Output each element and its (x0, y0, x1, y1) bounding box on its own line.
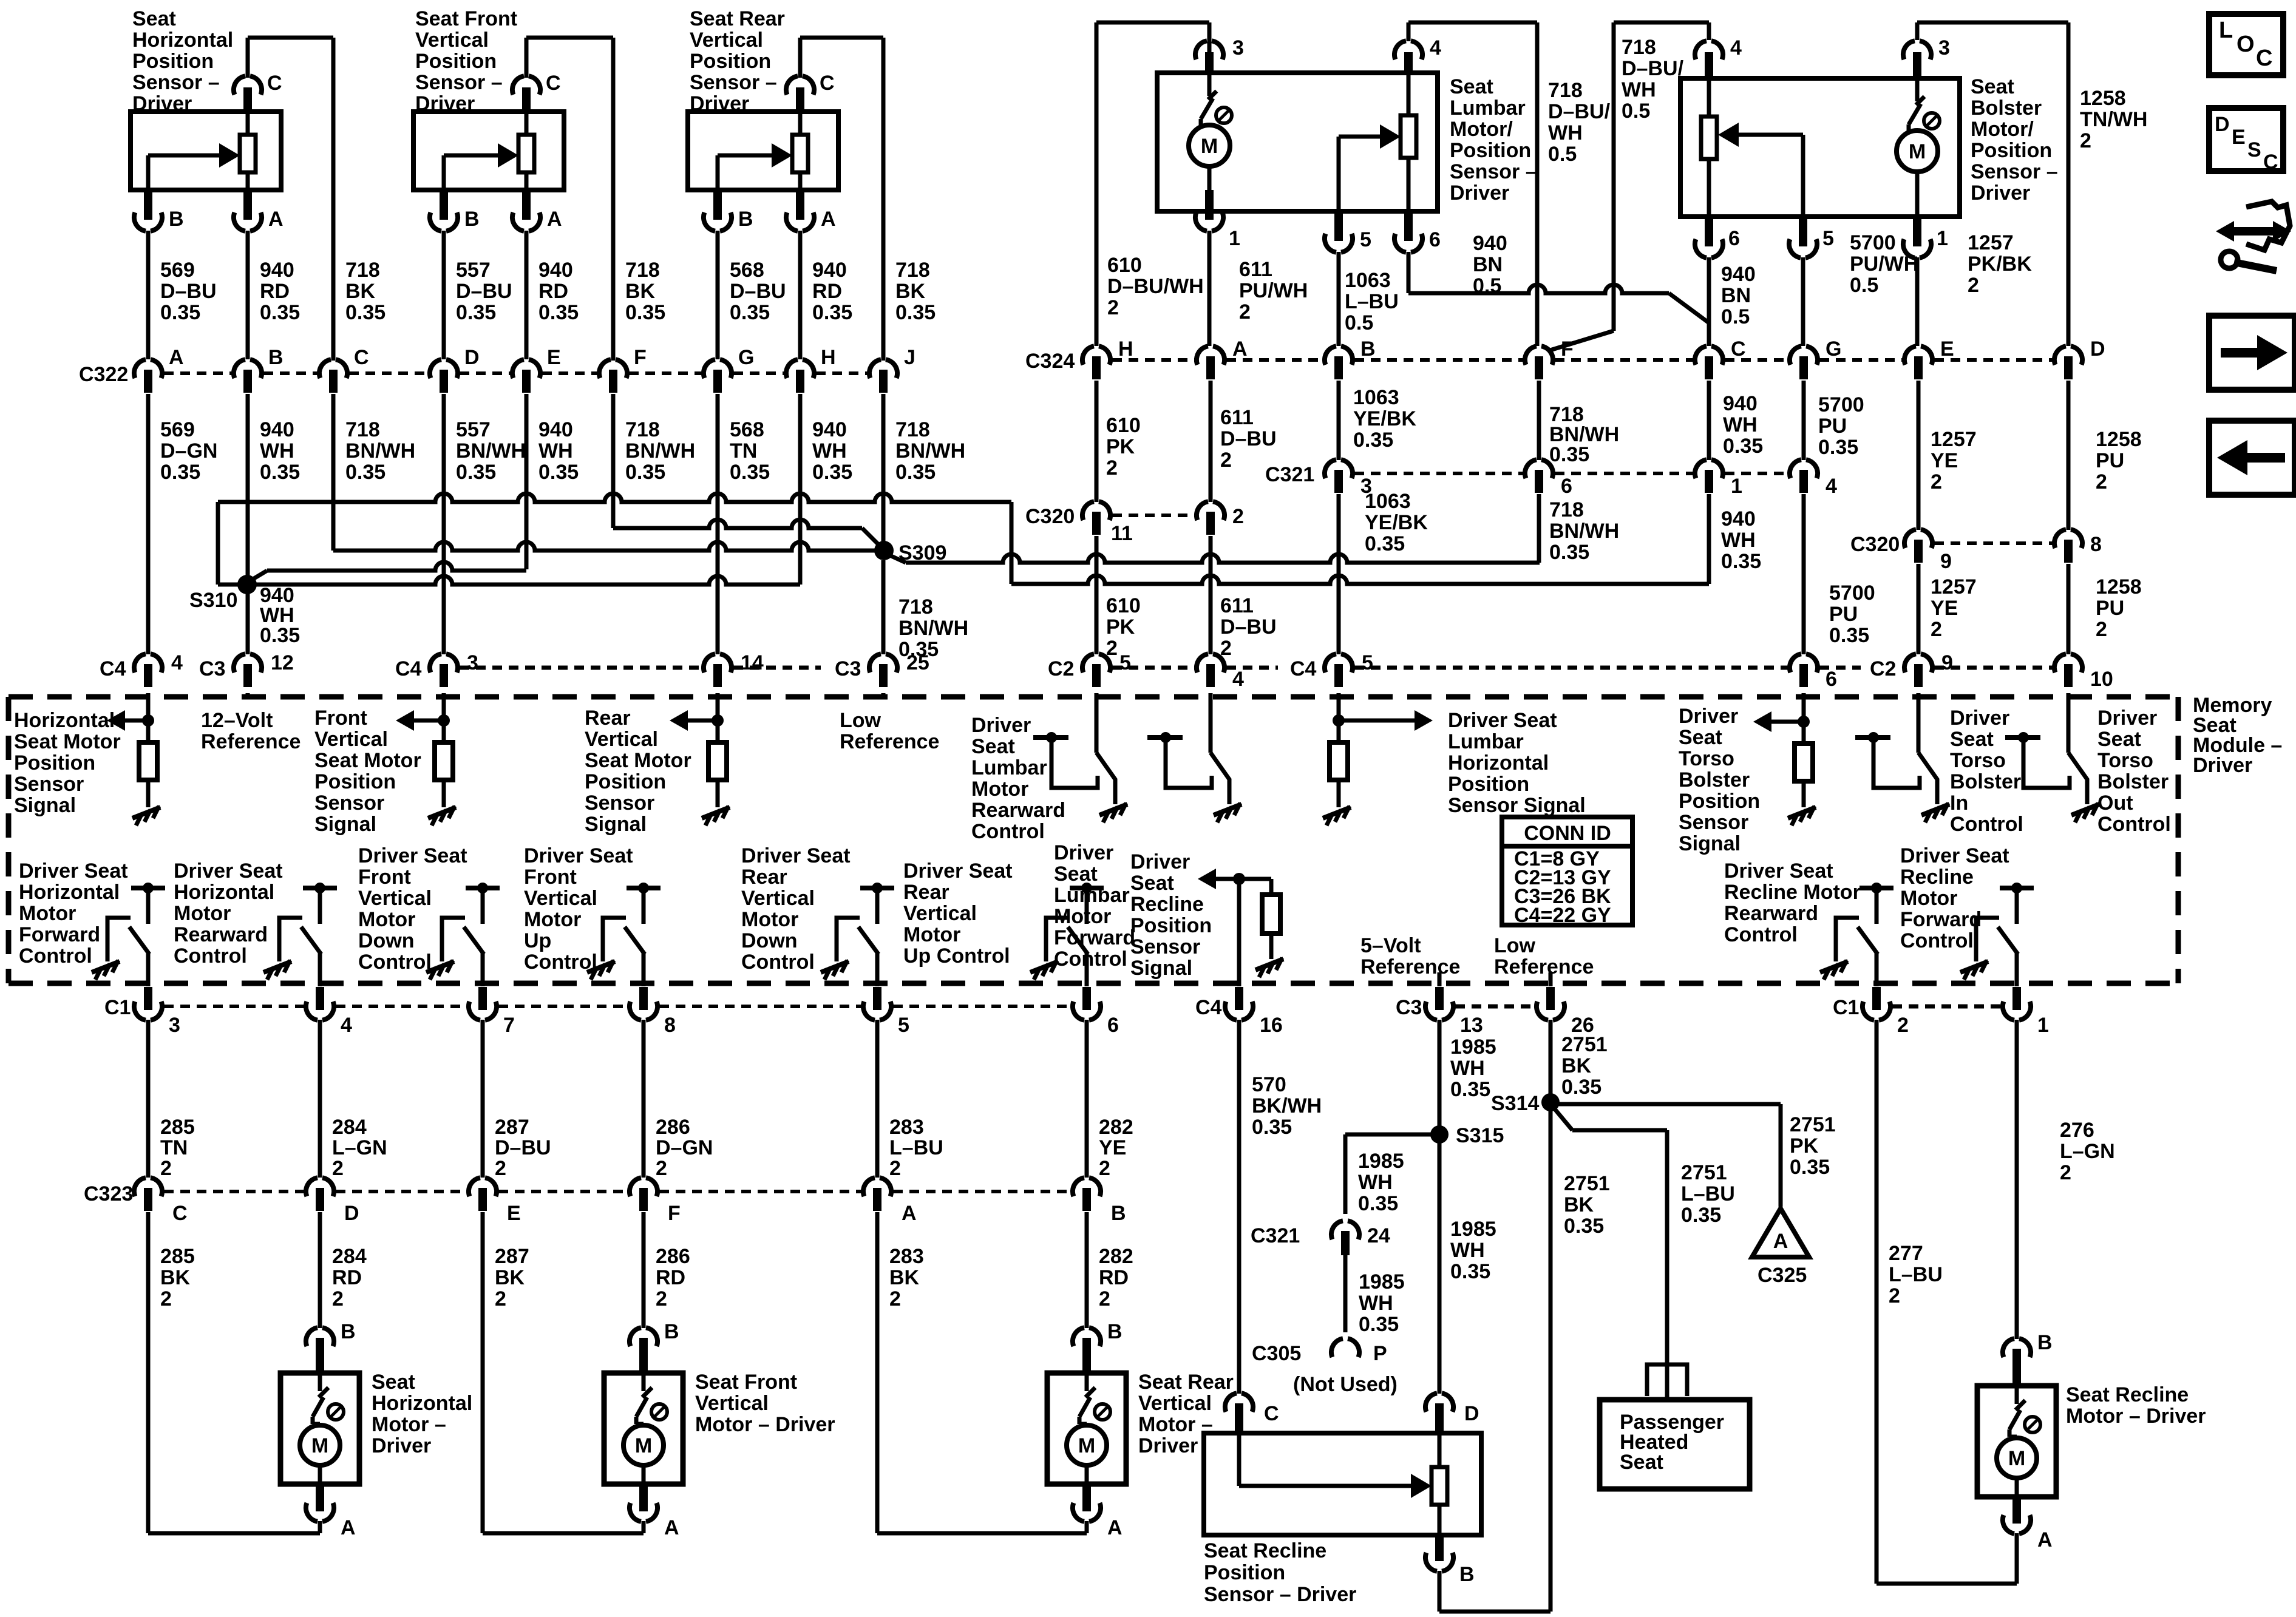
svg-text:Sensor: Sensor (585, 792, 654, 815)
svg-text:C324: C324 (1025, 350, 1075, 373)
svg-text:Sensor: Sensor (314, 792, 384, 815)
svg-text:PU: PU (1818, 415, 1847, 438)
svg-text:YE: YE (1931, 597, 1958, 620)
LOC icon box (2209, 14, 2283, 75)
module switch at C1-5 (rear vertical down) (821, 883, 894, 986)
connector C322 pin E (512, 346, 561, 393)
svg-text:B: B (268, 346, 284, 369)
wiper arrow inside sensor 2 (444, 143, 518, 190)
svg-text:25: 25 (906, 651, 929, 674)
wire label 285 BK 2 below C323 (160, 1245, 195, 1310)
pin B connector of sensor 3 (704, 190, 753, 359)
svg-text:Front: Front (314, 707, 367, 730)
module label Driver Seat Torso Bolster In Control (1950, 707, 2023, 836)
wire 718 BN/WH from C322-J to splice S309 (881, 394, 886, 551)
svg-text:E: E (1940, 337, 1954, 361)
svg-text:1063: 1063 (1365, 490, 1411, 513)
svg-text:Signal: Signal (1679, 832, 1741, 855)
svg-text:Horizontal: Horizontal (1448, 751, 1549, 775)
svg-text:1: 1 (1731, 475, 1742, 498)
wire label 285 TN 2 (160, 1116, 195, 1180)
svg-text:2: 2 (1232, 505, 1244, 528)
bus L1 drop at x=1666 (1010, 502, 1014, 584)
potentiometer inside sensor 3 (792, 112, 808, 190)
module C4-5 sensor input: arrow right, resistor, ground (1323, 693, 1433, 825)
svg-text:Control: Control (19, 944, 92, 968)
svg-text:Motor – Driver: Motor – Driver (2066, 1405, 2206, 1428)
top jumper wire from sensor 3 pin C (800, 38, 883, 361)
svg-text:Recline: Recline (1130, 893, 1204, 916)
wire 611 D-BU from C320-2 to module C2-4 (1209, 536, 1213, 654)
svg-text:A: A (1773, 1230, 1788, 1253)
svg-text:Vertical: Vertical (415, 29, 489, 52)
lumbar pin 4 connector (1394, 36, 1441, 73)
svg-text:Rearward: Rearward (1724, 902, 1818, 925)
svg-text:Vertical: Vertical (1138, 1392, 1212, 1415)
svg-text:E: E (547, 346, 561, 369)
svg-text:Control: Control (1900, 929, 1974, 952)
wire 284 RD from C323-D to motor1 pin B (318, 1212, 322, 1328)
bolster pin 4 jumper from second 718 wire (1614, 22, 1709, 40)
connector C320 pin 11 (1082, 501, 1133, 545)
svg-text:D–GN: D–GN (656, 1136, 713, 1159)
connector C321 pin 1 (1695, 459, 1742, 498)
svg-text:A: A (1232, 337, 1248, 361)
wire label 1257 YE 2 below C324-E (1931, 428, 1977, 493)
svg-text:Motor: Motor (971, 778, 1028, 801)
wire label 940 WH 0.35 below S310 (260, 584, 300, 647)
svg-text:Front: Front (524, 866, 577, 889)
svg-text:940: 940 (812, 259, 847, 282)
svg-text:C1: C1 (1833, 996, 1859, 1019)
svg-text:Position: Position (690, 50, 771, 73)
module C3-12 stub (246, 693, 250, 697)
module bottom pin 4 (306, 987, 352, 1037)
module switch at C2-10 (bolster out) (2005, 693, 2099, 822)
svg-text:5: 5 (1119, 651, 1131, 674)
lumbar pin 3 connector (1195, 36, 1244, 78)
svg-text:0.35: 0.35 (1818, 436, 1858, 459)
svg-text:0.5: 0.5 (1345, 311, 1373, 334)
wire label 5700 PU 0.35 below C324-G (1818, 393, 1864, 459)
svg-text:Seat: Seat (1450, 75, 1493, 98)
svg-text:Signal: Signal (1130, 957, 1192, 980)
svg-text:L–GN: L–GN (2060, 1140, 2115, 1163)
wire 610 PK from C320-11 to module C2-5 (1095, 536, 1099, 654)
wire 718 BN/WH from C322-C to bus L2 (331, 394, 336, 551)
wire label 940 BN 0.5 (bolster) (1721, 263, 1756, 328)
svg-text:L–GN: L–GN (332, 1136, 387, 1159)
svg-text:C2: C2 (1870, 657, 1896, 680)
svg-text:BN/WH: BN/WH (895, 439, 965, 463)
module label Driver Seat Recline Position Sensor Signal (1130, 850, 1212, 980)
svg-text:Driver: Driver (1679, 705, 1738, 728)
module top pin C4 3 (395, 651, 478, 687)
motor box at x=527 (280, 1373, 359, 1484)
svg-text:Position: Position (132, 50, 214, 73)
svg-text:BK: BK (1564, 1193, 1594, 1216)
svg-text:A: A (821, 208, 836, 231)
wire 1063 YE/BK from C321-3 to module C4-5 (1337, 494, 1341, 654)
wire 2751 PK branch from S314 to C325 triangle (1550, 1104, 1781, 1207)
module bottom pin 1 (2003, 987, 2049, 1037)
svg-text:C320: C320 (1025, 505, 1075, 528)
svg-text:0.35: 0.35 (625, 461, 665, 484)
wire label 718 D-BU/WH 0.5 (right) (1622, 36, 1684, 123)
svg-text:0.35: 0.35 (538, 461, 579, 484)
svg-text:Seat: Seat (1679, 726, 1722, 749)
recline sensor label (1204, 1539, 1356, 1606)
connector C324 pin B (1325, 337, 1376, 379)
svg-text:4: 4 (1232, 668, 1244, 691)
svg-text:C: C (1264, 1402, 1279, 1425)
svg-text:Position: Position (1130, 914, 1212, 937)
svg-text:WH: WH (538, 439, 573, 463)
module bottom pin C1 2 (1833, 987, 1909, 1037)
svg-text:13: 13 (1460, 1014, 1483, 1037)
svg-text:H: H (821, 346, 836, 369)
svg-text:BK: BK (889, 1266, 920, 1289)
module C4-16 sensor input: arrow, offset resistor, ground (1198, 869, 1283, 986)
svg-text:0.35: 0.35 (345, 461, 385, 484)
svg-text:C320: C320 (1850, 533, 1900, 556)
svg-text:P: P (1373, 1342, 1387, 1365)
motor1 pin A connector (306, 1484, 356, 1539)
svg-text:718: 718 (345, 259, 380, 282)
svg-text:Bolster: Bolster (1971, 97, 2042, 120)
connector C323 pin B (1073, 1178, 1126, 1225)
svg-text:611: 611 (1220, 594, 1254, 617)
svg-text:0.35: 0.35 (812, 301, 852, 324)
svg-text:0.35: 0.35 (1450, 1078, 1490, 1101)
svg-text:Vertical: Vertical (741, 887, 815, 910)
bus L4 940 circuit from S310 to C322-H wire (256, 576, 800, 585)
module bottom short-dash connector runs (164, 1005, 2001, 1008)
wire label 277 L-BU 2 (1889, 1242, 1943, 1307)
wiper arrow inside sensor 3 (718, 143, 792, 190)
connector C323 pin D (306, 1178, 359, 1225)
svg-text:5700: 5700 (1850, 231, 1896, 254)
svg-text:(Not Used): (Not Used) (1293, 1373, 1398, 1396)
Passenger Heated Seat box (1600, 1400, 1750, 1489)
svg-text:B: B (1360, 337, 1376, 361)
connector C324 pin F (1525, 337, 1574, 379)
svg-text:277: 277 (1889, 1242, 1923, 1265)
svg-text:A: A (902, 1202, 917, 1225)
svg-text:0.35: 0.35 (625, 301, 665, 324)
pin B connector of sensor 1 (134, 190, 184, 359)
wire from module bottom pin to C323 at x=795 (481, 1020, 485, 1178)
svg-text:0.35: 0.35 (812, 461, 852, 484)
svg-text:B: B (738, 208, 753, 231)
svg-text:Rear: Rear (741, 866, 787, 889)
svg-text:PK/BK: PK/BK (1968, 253, 2032, 276)
bolster pin 1 connector (1903, 217, 1948, 346)
motor switch (313, 1373, 344, 1424)
module label Driver Seat Front Vertical Motor Down Control (358, 844, 467, 974)
lumbar motor M (1189, 73, 1232, 190)
svg-text:Sensor: Sensor (14, 773, 84, 796)
svg-text:1258: 1258 (2096, 575, 2142, 598)
wire from module bottom pin to C323 at x=1445 (875, 1020, 880, 1178)
module label Driver Seat Horizontal Motor Forward Control (19, 859, 128, 968)
connector C322 label (79, 363, 128, 386)
wire label 1985 WH 0.35 (branch) (1358, 1150, 1404, 1215)
svg-text:569: 569 (160, 418, 195, 441)
connector row C320 left dashed line (1112, 514, 1195, 517)
connector C324 pin D (2054, 337, 2105, 379)
svg-text:D: D (2090, 337, 2105, 361)
svg-text:4: 4 (1730, 36, 1742, 59)
svg-text:B: B (1111, 1202, 1126, 1225)
wire label 2751 BK 0.35 below S314 (1564, 1172, 1610, 1238)
module label Low Reference (C3-25) (840, 709, 939, 753)
svg-text:C3: C3 (199, 657, 225, 680)
svg-text:Motor: Motor (358, 908, 415, 931)
svg-text:Rear: Rear (903, 881, 949, 904)
svg-text:0.35: 0.35 (345, 301, 385, 324)
svg-text:Seat: Seat (1620, 1451, 1663, 1474)
svg-text:PU/WH: PU/WH (1239, 279, 1308, 302)
module label Rear Vertical Seat Motor Position Sensor Signal (585, 707, 691, 836)
svg-text:Signal: Signal (14, 794, 76, 817)
svg-text:0.35: 0.35 (1790, 1156, 1830, 1179)
connector C320 pin 2 (1197, 501, 1244, 535)
motor switch (636, 1373, 667, 1424)
svg-text:Torso: Torso (1950, 749, 2006, 772)
module label Driver Seat Lumbar Motor Forward Control (1054, 841, 1135, 971)
svg-text:WH: WH (1358, 1171, 1393, 1194)
module label Front Vertical Seat Motor Position Sensor Signal (314, 707, 421, 836)
pin A connector of sensor 3 (786, 190, 836, 359)
recline sensor pin B connector (1425, 1535, 1475, 1586)
svg-text:2: 2 (332, 1157, 344, 1180)
wire 1063 YE/BK from C324-B to C321-3 (1337, 381, 1341, 460)
module label Driver Seat Rear Vertical Motor Up Control (903, 859, 1013, 968)
connector row C323 dashed line (164, 1190, 1071, 1193)
module switch at C2-5 (lumbar rearward) (1033, 693, 1127, 822)
svg-text:718: 718 (1548, 79, 1583, 102)
module bottom pin 7 (469, 987, 515, 1037)
wire 1257 YE from C324-E to C320-9 (1917, 381, 1921, 530)
svg-text:Vertical: Vertical (524, 887, 597, 910)
svg-text:0.35: 0.35 (260, 624, 300, 647)
svg-text:BN/WH: BN/WH (898, 617, 968, 640)
svg-text:6: 6 (1429, 228, 1441, 251)
svg-text:276: 276 (2060, 1119, 2094, 1142)
module bottom pin 8 (630, 987, 676, 1037)
svg-text:A: A (1107, 1516, 1123, 1539)
svg-text:Driver Seat: Driver Seat (1448, 709, 1557, 732)
wire 568 TN from C322-G to module pin 14 (716, 394, 720, 654)
wire label 2751 PK 0.35 (1790, 1113, 1836, 1179)
bolster potentiometer (1701, 78, 1717, 217)
svg-text:Driver Seat: Driver Seat (903, 859, 1013, 883)
wire label 940 RD 0.35 (sensor1) (260, 259, 300, 324)
svg-text:M: M (311, 1434, 328, 1457)
sensor S1 label: Seat Horizontal Position Sensor – Driver (132, 7, 233, 115)
svg-text:Low: Low (1494, 934, 1536, 957)
svg-text:0.35: 0.35 (160, 301, 200, 324)
svg-text:2: 2 (2060, 1161, 2071, 1184)
svg-text:0.35: 0.35 (1450, 1260, 1490, 1283)
connector C321 label (1265, 463, 1314, 486)
svg-text:BN/WH: BN/WH (1549, 520, 1619, 543)
svg-text:D–BU: D–BU (456, 280, 512, 303)
svg-text:Sensor: Sensor (1130, 935, 1200, 958)
svg-text:0.35: 0.35 (1564, 1215, 1604, 1238)
Passenger Heated Seat in-line connector staple (1647, 1361, 1687, 1400)
svg-text:Rearward: Rearward (971, 799, 1065, 822)
wire label 610 PK 2 above C320 (1106, 414, 1141, 480)
connector row C322 dashed line (164, 371, 868, 375)
motor box at x=1790 (1047, 1373, 1126, 1484)
svg-text:D–BU: D–BU (160, 280, 217, 303)
svg-text:Vertical: Vertical (314, 728, 388, 751)
wire 940 WH from C322-E to bus L3 (525, 394, 529, 569)
svg-text:Seat Front: Seat Front (415, 7, 517, 30)
svg-text:Control: Control (971, 820, 1045, 843)
wire label 611 PU/WH 2 (1239, 258, 1308, 324)
svg-text:1063: 1063 (1345, 269, 1391, 292)
svg-text:Sensor: Sensor (1679, 811, 1748, 834)
wire label 718 D-BU/WH 0.5 (left) (1548, 79, 1611, 166)
wire loop from recline motor A to 277 wire (1877, 1533, 2017, 1584)
wire 610 PK from C324-H to C320-11 (1095, 381, 1099, 502)
svg-text:YE: YE (1099, 1136, 1126, 1159)
svg-text:0.35: 0.35 (730, 301, 770, 324)
svg-text:Driver: Driver (1138, 1434, 1198, 1457)
connector C324 label (1025, 350, 1075, 373)
svg-text:PU: PU (2096, 449, 2124, 472)
bolster unit label (1971, 75, 2058, 205)
svg-text:570: 570 (1252, 1073, 1286, 1096)
svg-text:Bolster: Bolster (1679, 768, 1750, 792)
svg-text:Seat: Seat (1950, 728, 1994, 751)
module top pin 6 (1790, 654, 1837, 691)
svg-text:PK: PK (1106, 435, 1135, 458)
wire label 1063 YE/BK 0.35 below C321-3 (1365, 490, 1428, 555)
svg-text:RD: RD (656, 1266, 685, 1289)
splice S310 (189, 575, 257, 612)
module label Driver Seat Lumbar Horizontal Position Sensor Signal (1448, 709, 1586, 817)
svg-text:940: 940 (260, 418, 294, 441)
connector C323 pin E (469, 1178, 521, 1225)
svg-text:Position: Position (14, 751, 95, 775)
wire 718 BN/WH from C324-F to C321-6 (1537, 381, 1541, 460)
motor2 pin B connector (630, 1320, 679, 1373)
svg-text:Signal: Signal (314, 813, 376, 836)
svg-text:610: 610 (1107, 254, 1142, 277)
wire label 940 RD 0.35 (sensor2) (538, 259, 579, 324)
wire label 5700 PU/WH 0.5 (1850, 231, 1918, 297)
svg-text:0.35: 0.35 (1353, 429, 1393, 452)
svg-text:2: 2 (1931, 470, 1942, 493)
svg-text:Seat Front: Seat Front (695, 1371, 797, 1394)
motor M circle (1067, 1424, 1107, 1484)
svg-text:287: 287 (495, 1116, 529, 1139)
wire 557 BN/WH from C322-D to module C4-3 (442, 394, 446, 654)
svg-text:Driver: Driver (372, 1434, 431, 1457)
svg-text:Seat Rear: Seat Rear (1138, 1371, 1234, 1394)
connector C320 label (left) (1025, 505, 1075, 528)
svg-text:BN: BN (1721, 284, 1751, 307)
module top pin 14 (704, 651, 764, 687)
svg-text:Vertical: Vertical (903, 902, 977, 925)
svg-text:940: 940 (538, 418, 573, 441)
svg-text:5700: 5700 (1829, 581, 1875, 605)
svg-text:Bolster: Bolster (2097, 770, 2169, 793)
module top pin C2 5 (1048, 651, 1131, 687)
svg-text:0.35: 0.35 (1549, 443, 1589, 466)
svg-text:0.35: 0.35 (1359, 1313, 1399, 1336)
wire label 569 D-BU 0.35 (160, 259, 217, 324)
svg-text:Torso: Torso (1679, 747, 1734, 770)
wire 2751 BK from pin 26 through S314 down to loop (1549, 1020, 1553, 1612)
svg-text:24: 24 (1367, 1224, 1390, 1247)
svg-text:WH: WH (1622, 78, 1656, 101)
wire label 557 D-BU 0.35 (456, 259, 512, 324)
svg-text:283: 283 (889, 1116, 924, 1139)
svg-text:Down: Down (358, 929, 415, 952)
Seat Recline Position Sensor - Driver box (1204, 1433, 1481, 1535)
svg-text:Position: Position (314, 770, 396, 793)
svg-text:10: 10 (2090, 668, 2113, 691)
svg-text:BK: BK (495, 1266, 525, 1289)
connector C324 pin H (1082, 337, 1133, 379)
svg-text:C321: C321 (1265, 463, 1314, 486)
module bottom pin 5 (863, 987, 909, 1037)
svg-text:718: 718 (895, 418, 930, 441)
wire label 283 L–BU 2 (889, 1116, 943, 1180)
svg-text:2: 2 (656, 1287, 667, 1310)
svg-text:1: 1 (2037, 1014, 2049, 1037)
svg-text:Lumbar: Lumbar (1450, 97, 1526, 120)
wire label 286 RD 2 below C323 (656, 1245, 690, 1310)
wire 569 D-GN from C322-A to module C4-4 (146, 394, 151, 654)
svg-text:Seat Motor: Seat Motor (14, 730, 121, 753)
Memory Seat Module dashed border (8, 697, 2178, 983)
wire label 940 RD 0.35 (sensor3) (812, 259, 852, 324)
svg-text:F: F (668, 1202, 681, 1225)
motor label (372, 1371, 472, 1457)
svg-text:D–BU: D–BU (495, 1136, 551, 1159)
sensor S3 label: Seat Rear Vertical Position Sensor – Driver (690, 7, 785, 115)
wire label 718 BK 0.35 (sensor3) (895, 259, 936, 324)
svg-text:Motor –: Motor – (372, 1413, 446, 1436)
svg-text:Control: Control (1724, 923, 1798, 946)
svg-text:8: 8 (2090, 533, 2102, 556)
svg-text:1985: 1985 (1359, 1270, 1405, 1293)
wire 718 BN/WH from S309 to module C3-25 (881, 560, 886, 654)
module top pin C3 12 (199, 651, 294, 687)
svg-text:B: B (169, 208, 184, 231)
wire from module bottom pin to C323 at x=244 (146, 1020, 151, 1178)
svg-text:PK: PK (1106, 615, 1135, 639)
svg-text:M: M (2008, 1447, 2025, 1470)
svg-text:284: 284 (332, 1245, 367, 1268)
connector C323 label (84, 1182, 133, 1205)
wire 1985 WH from C3-13 to splice S315 (1438, 1020, 1442, 1394)
svg-text:0.5: 0.5 (1721, 305, 1750, 328)
svg-text:Position: Position (1679, 790, 1760, 813)
svg-text:940: 940 (538, 259, 573, 282)
svg-text:2: 2 (2096, 618, 2107, 641)
svg-text:Forward: Forward (1054, 926, 1135, 949)
svg-text:718: 718 (625, 418, 660, 441)
svg-text:Driver: Driver (1971, 181, 2030, 205)
svg-text:2751: 2751 (1564, 1172, 1610, 1195)
